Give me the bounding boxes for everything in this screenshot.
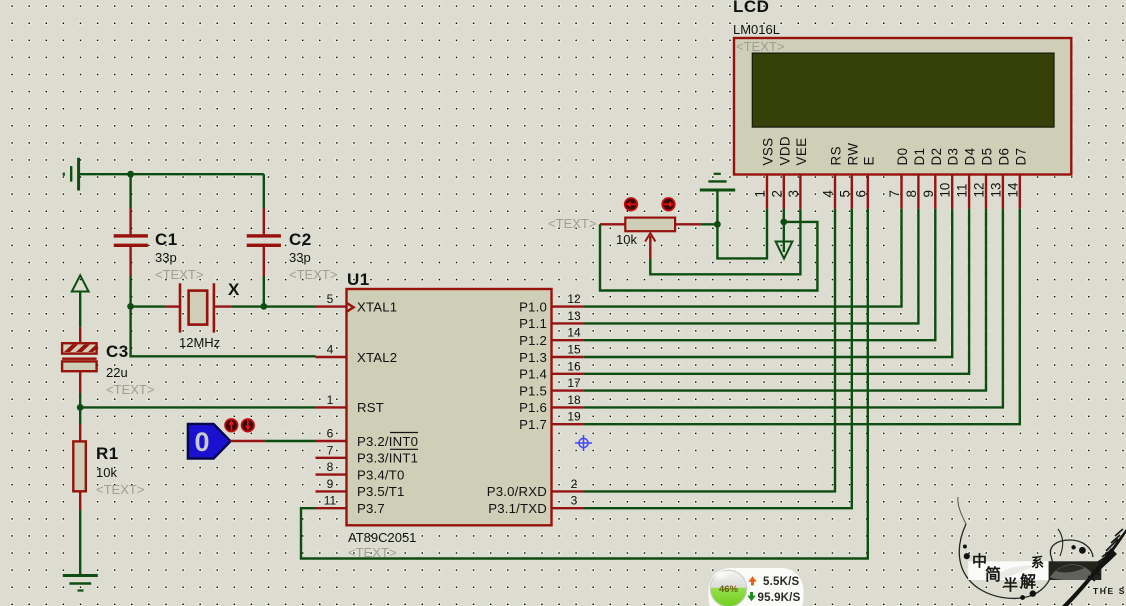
svg-text:7: 7 — [887, 190, 902, 197]
wire P3.1 to RW — [583, 209, 851, 509]
LCD pin 5 (RW) stub — [851, 175, 853, 209]
junction VDD node — [780, 219, 787, 226]
svg-text:<TEXT>: <TEXT> — [96, 482, 144, 497]
svg-text:0: 0 — [194, 427, 209, 457]
svg-text:13: 13 — [567, 309, 581, 323]
pin 7 (P3.3/INT1) stub — [316, 457, 347, 459]
wire C1 bottom lead — [129, 247, 131, 276]
svg-text:<TEXT>: <TEXT> — [106, 382, 154, 397]
LCD pin 3 (VEE) stub — [799, 175, 801, 209]
junction RST node — [77, 404, 84, 411]
svg-text:9: 9 — [921, 190, 936, 197]
capacitor C3 (electrolytic) — [62, 343, 97, 353]
svg-text:22u: 22u — [106, 365, 128, 380]
wire R1 bottom lead — [79, 491, 81, 510]
wire RST net — [80, 406, 315, 408]
down arrow — [747, 592, 755, 601]
junction C1/XTAL2/crystal — [127, 303, 134, 310]
pin 5 (XTAL1) stub — [316, 305, 347, 307]
svg-text:8: 8 — [904, 190, 919, 197]
ground (top left, rotated) — [77, 158, 80, 191]
svg-text:14: 14 — [567, 326, 581, 340]
pin 4 (XTAL2) stub — [316, 356, 347, 358]
logicstate probe — [188, 424, 231, 459]
pot RV1 right lead — [675, 223, 701, 225]
svg-text:D4: D4 — [963, 147, 978, 165]
pin 19 (P1.7) stub — [552, 423, 584, 425]
wire C3 bottom lead — [79, 371, 81, 392]
svg-text:33p: 33p — [155, 250, 177, 265]
svg-text:系: 系 — [1031, 555, 1044, 570]
svg-text:P3.2/INT0: P3.2/INT0 — [357, 434, 418, 449]
svg-text:P3.4/T0: P3.4/T0 — [357, 467, 405, 482]
power symbol (down arrow, VDD) — [783, 222, 785, 252]
wire P1.5 to D5 — [583, 209, 986, 391]
svg-text:2: 2 — [571, 477, 578, 491]
svg-text:RW: RW — [845, 143, 860, 166]
svg-text:10k: 10k — [96, 465, 117, 480]
svg-text:P1.2: P1.2 — [519, 333, 547, 348]
pin 14 (P1.2) stub — [552, 339, 584, 341]
svg-text:<TEXT>: <TEXT> — [736, 39, 784, 54]
svg-text:11: 11 — [955, 184, 970, 198]
wire junction to crystal left — [131, 305, 165, 307]
LCD LM016L body — [734, 38, 1071, 175]
svg-text:D0: D0 — [895, 148, 910, 166]
svg-text:LCD: LCD — [733, 0, 769, 16]
junction C2/XTAL1/crystal — [260, 303, 267, 310]
svg-text:D2: D2 — [929, 148, 944, 166]
svg-text:5.5K/S: 5.5K/S — [763, 576, 799, 588]
logicstate toggle down — [242, 419, 255, 432]
svg-text:THE SE: THE SE — [1093, 586, 1126, 596]
svg-text:14: 14 — [1005, 182, 1020, 197]
pin 12 (P1.0) stub — [552, 305, 584, 307]
svg-text:LM016L: LM016L — [733, 22, 780, 37]
svg-text:17: 17 — [567, 376, 581, 390]
wire P1.2 to D2 — [583, 209, 935, 341]
svg-text:XTAL2: XTAL2 — [357, 350, 397, 365]
svg-text:15: 15 — [567, 343, 581, 357]
svg-text:P3.0/RXD: P3.0/RXD — [487, 484, 547, 499]
wire C2 bottom lead — [263, 247, 265, 276]
svg-text:D7: D7 — [1013, 148, 1028, 166]
svg-text:10: 10 — [938, 183, 953, 198]
svg-text:5: 5 — [327, 292, 334, 306]
svg-text:U1: U1 — [347, 270, 370, 289]
pin 13 (P1.1) stub — [552, 322, 584, 324]
LCD pin 7 (D0) stub — [900, 175, 902, 209]
LCD pin 1 (VSS) stub — [766, 175, 768, 209]
wire VDD pin 2 down — [783, 209, 785, 222]
resistor R1 — [73, 441, 86, 491]
svg-text:3: 3 — [571, 494, 578, 508]
svg-text:12MHz: 12MHz — [179, 335, 220, 350]
svg-text:46%: 46% — [719, 584, 739, 595]
pot toggle right — [662, 198, 675, 211]
svg-text:RS: RS — [829, 146, 844, 165]
svg-text:P1.0: P1.0 — [519, 299, 547, 314]
svg-text:简: 简 — [985, 565, 1001, 584]
capacitor C2 — [247, 234, 281, 237]
svg-text:4: 4 — [821, 190, 836, 198]
svg-text:12: 12 — [972, 183, 987, 198]
junction pot right / VSS — [714, 221, 721, 228]
svg-text:6: 6 — [327, 427, 334, 441]
LCD screen — [752, 53, 1054, 127]
svg-text:解: 解 — [1020, 572, 1036, 591]
wire C2 top lead — [263, 174, 265, 208]
svg-text:R1: R1 — [96, 444, 119, 463]
svg-text:<TEXT>: <TEXT> — [548, 216, 596, 231]
svg-text:4: 4 — [327, 343, 334, 357]
wire R1 top lead — [79, 407, 81, 424]
svg-text:6: 6 — [853, 190, 868, 197]
up arrow — [748, 576, 756, 585]
pin 18 (P1.6) stub — [552, 406, 584, 408]
svg-text:P3.5/T1: P3.5/T1 — [357, 484, 405, 499]
speed overlay (decorative) — [709, 568, 804, 606]
svg-text:D6: D6 — [996, 148, 1011, 166]
pin 6 (P3.2/INT0) stub — [316, 440, 347, 442]
pot RV1 body — [625, 218, 675, 232]
svg-text:18: 18 — [567, 393, 581, 407]
svg-text:<TEXT>: <TEXT> — [289, 267, 337, 282]
svg-text:P1.4: P1.4 — [519, 367, 547, 382]
pin 1 (RST) stub — [316, 406, 347, 408]
op-amp U1 body (AT89C2051) — [347, 289, 552, 525]
wire P1.4 to D4 — [583, 209, 969, 374]
ground (above pot, inverted) — [700, 189, 735, 192]
svg-text:<TEXT>: <TEXT> — [155, 267, 203, 282]
svg-text:12: 12 — [567, 292, 581, 306]
svg-text:C2: C2 — [289, 230, 312, 249]
LCD pin 11 (D4) stub — [968, 175, 970, 209]
pin 15 (P1.3) stub — [552, 356, 584, 358]
wire C3 top lead — [79, 327, 81, 343]
svg-text:13: 13 — [988, 183, 1003, 198]
wire wiper to VEE pin 3 — [650, 209, 800, 275]
svg-text:33p: 33p — [289, 250, 311, 265]
svg-text:5: 5 — [837, 190, 852, 197]
svg-text:P1.5: P1.5 — [519, 383, 547, 398]
svg-text:7: 7 — [327, 443, 334, 457]
LCD pin 4 (RS) stub — [834, 175, 836, 209]
svg-text:1: 1 — [327, 393, 334, 407]
svg-text:P3.1/TXD: P3.1/TXD — [488, 501, 547, 516]
svg-text:95.9K/S: 95.9K/S — [758, 592, 801, 604]
ground (bottom left) — [63, 574, 98, 577]
svg-text:半: 半 — [1003, 576, 1018, 594]
svg-text:D3: D3 — [946, 148, 961, 166]
svg-text:XTAL1: XTAL1 — [357, 299, 397, 314]
svg-text:16: 16 — [567, 359, 581, 373]
svg-text:P3.7: P3.7 — [357, 501, 385, 516]
pin 11 (P3.7) stub — [316, 507, 347, 509]
svg-text:E: E — [861, 156, 876, 165]
power symbol (up arrow) — [72, 275, 89, 291]
pin 3 (P3.1/TXD) stub — [552, 507, 584, 509]
svg-text:D5: D5 — [980, 148, 995, 166]
wire P3.0 to RS — [583, 209, 835, 492]
svg-text:19: 19 — [567, 410, 581, 424]
wire P3.7 to E — [301, 209, 868, 559]
svg-text:C3: C3 — [106, 342, 129, 361]
wire junction to XTAL1 pin — [264, 305, 316, 307]
LCD pin 2 (VDD) stub — [783, 175, 785, 209]
LCD pin 8 (D1) stub — [917, 175, 919, 209]
svg-text:VDD: VDD — [777, 136, 792, 165]
junction C1 top — [127, 171, 134, 178]
wire pot right to VSS pin 1 — [717, 209, 767, 259]
crystal X1 pins — [165, 305, 180, 307]
wire ground to C1/C2 top rail — [79, 173, 264, 175]
cursor crosshair — [575, 435, 592, 451]
svg-text:8: 8 — [327, 460, 334, 474]
wire pot left to VDD rail — [600, 222, 817, 291]
crystal X body — [179, 283, 182, 332]
capacitor C1 — [114, 234, 148, 237]
svg-text:X: X — [228, 280, 240, 299]
logicstate toggle up — [225, 419, 238, 432]
pin 9 (P3.5/T1) stub — [316, 490, 347, 492]
svg-text:1: 1 — [753, 190, 768, 197]
svg-text:P3.3/INT1: P3.3/INT1 — [357, 451, 418, 466]
pin 2 (P3.0/RXD) stub — [552, 490, 584, 492]
svg-text:D1: D1 — [912, 148, 927, 166]
wire logicstate to P3.2 — [231, 440, 265, 442]
svg-text:VSS: VSS — [761, 138, 776, 166]
svg-text:VEE: VEE — [794, 138, 809, 166]
pot RV1 left lead — [600, 223, 625, 225]
svg-text:P1.1: P1.1 — [519, 316, 547, 331]
pin 16 (P1.4) stub — [552, 373, 584, 375]
wire P1.6 to D6 — [583, 209, 1003, 408]
XTAL1 clock arrow — [347, 303, 354, 312]
wire P1.7 to D7 — [583, 209, 1019, 425]
svg-text:AT89C2051: AT89C2051 — [348, 530, 416, 545]
LCD pin 14 (D7) stub — [1019, 175, 1021, 209]
svg-text:11: 11 — [324, 494, 337, 508]
LCD pin 6 (E) stub — [867, 175, 869, 209]
svg-text:P1.6: P1.6 — [519, 400, 547, 415]
wire XTAL2 net — [131, 306, 316, 356]
LCD pin 9 (D2) stub — [934, 175, 936, 209]
watermark logo (decorative) — [958, 497, 1126, 606]
LCD pin 12 (D5) stub — [985, 175, 987, 209]
svg-text:C1: C1 — [155, 230, 178, 249]
svg-text:2: 2 — [769, 190, 784, 197]
svg-text:10k: 10k — [616, 232, 637, 247]
pot toggle left — [625, 198, 638, 211]
wire P1.3 to D3 — [583, 209, 952, 357]
svg-text:RST: RST — [357, 400, 384, 415]
LCD pin 13 (D6) stub — [1002, 175, 1004, 209]
svg-text:9: 9 — [327, 477, 334, 491]
wire P1.0 to D0 — [583, 209, 901, 307]
pin 17 (P1.5) stub — [552, 389, 584, 391]
svg-text:P1.7: P1.7 — [519, 417, 547, 432]
pin 8 (P3.4/T0) stub — [316, 473, 347, 475]
svg-text:3: 3 — [786, 190, 801, 197]
pot RV1 wiper arrow — [649, 236, 651, 259]
wire C1 top lead — [129, 174, 131, 208]
svg-text:P1.3: P1.3 — [519, 350, 547, 365]
LCD pin 10 (D3) stub — [951, 175, 953, 209]
wire P1.1 to D1 — [583, 209, 918, 324]
